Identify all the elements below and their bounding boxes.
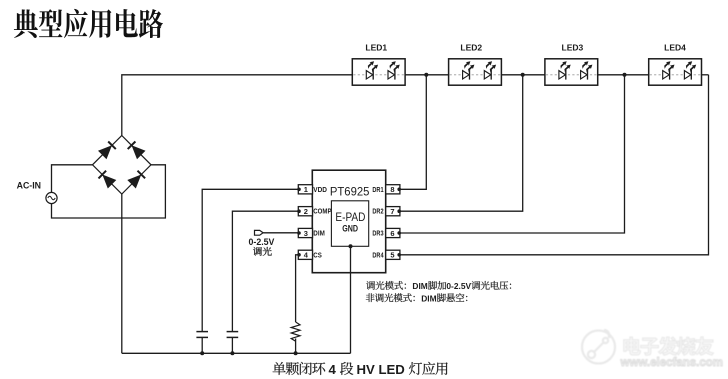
wire DR3 to LED3/LED4 node <box>399 75 624 233</box>
bridge diode (bottom to left) <box>102 175 116 189</box>
wire DR4 to LED4 output <box>399 75 708 255</box>
pin 4 (CS) <box>298 250 312 259</box>
node LED1/LED2 <box>424 73 428 77</box>
node LED3/LED4 <box>623 73 627 77</box>
node LED2/LED3 <box>521 73 525 77</box>
pin 2 (COMP) <box>298 207 312 216</box>
ground rail <box>122 352 351 354</box>
pin 7 (DR2) <box>386 207 400 216</box>
wire DR2 to LED2/LED3 node <box>399 75 523 211</box>
wire DR1 to LED1/LED2 node <box>399 75 426 190</box>
wire DIM input to pin 3 <box>263 232 299 234</box>
svg-text:7: 7 <box>390 207 394 216</box>
label 调光 <box>253 247 272 256</box>
capacitor C1 <box>196 331 208 333</box>
pin 6 (DR3) <box>386 228 400 237</box>
wire bridge left vertex to AC source <box>52 165 93 193</box>
note line 1 <box>366 281 406 290</box>
svg-text:AC-IN: AC-IN <box>17 180 41 190</box>
LED string LED4 <box>649 59 702 85</box>
wire C1 to ground rail <box>201 337 203 353</box>
op-chip U1 PT6925 body <box>312 170 385 273</box>
svg-text:DIM: DIM <box>412 281 427 291</box>
svg-text:LED1: LED1 <box>365 42 387 52</box>
wire bridge bottom vertex to ground rail <box>121 194 123 353</box>
watermark 电子发烧友 <box>624 337 714 355</box>
LED string LED1 <box>352 59 405 85</box>
node E-PAD GND <box>349 244 353 248</box>
wire bridge top vertex to LED top rail <box>122 75 352 136</box>
bridge rectifier (diamond) <box>93 136 152 195</box>
svg-text:5: 5 <box>390 251 394 260</box>
svg-text:LED4: LED4 <box>664 42 686 52</box>
LED string LED3 <box>545 59 598 85</box>
svg-text:3: 3 <box>304 229 308 238</box>
svg-text:DR1: DR1 <box>372 187 383 194</box>
wire COMP to C2 <box>232 211 299 331</box>
svg-text:GND: GND <box>342 223 358 234</box>
pin 8 (DR1) <box>386 185 400 194</box>
svg-text:DR4: DR4 <box>372 252 383 259</box>
svg-text:DR2: DR2 <box>372 209 383 216</box>
svg-text:0-2.5V: 0-2.5V <box>446 281 471 291</box>
svg-text:www.elecfans.com: www.elecfans.com <box>620 357 723 369</box>
wire E-PAD GND to ground rail <box>350 246 352 353</box>
pin 3 (DIM) <box>298 228 312 237</box>
svg-text:LED2: LED2 <box>460 42 482 52</box>
svg-text:PT6925: PT6925 <box>330 184 370 198</box>
svg-text:COMP: COMP <box>313 209 331 216</box>
caption 单颗闭环4段HV LED灯应用 <box>273 362 326 375</box>
wire LED4 to DR4 drop <box>702 74 709 76</box>
svg-text:0-2.5V: 0-2.5V <box>249 237 275 247</box>
svg-text:E-PAD: E-PAD <box>335 210 365 224</box>
bridge diode (bottom to right) <box>127 175 141 189</box>
wire LED2 to LED3 <box>501 74 545 76</box>
title 典型应用电路 <box>14 9 163 38</box>
svg-text:LED3: LED3 <box>562 42 584 52</box>
watermark logo circle <box>582 330 615 364</box>
wire CS to R1 <box>296 255 299 322</box>
svg-text:VDD: VDD <box>313 187 327 194</box>
svg-text:CS: CS <box>313 252 322 259</box>
node C1/ground <box>200 351 204 355</box>
bridge diode (right to top) <box>132 145 146 159</box>
LED string LED2 <box>449 59 502 85</box>
wire C2 to ground rail <box>231 337 233 353</box>
svg-text:1: 1 <box>304 185 308 194</box>
svg-text:4: 4 <box>325 362 340 377</box>
svg-text:DR3: DR3 <box>372 231 383 238</box>
connector DIM input <box>255 230 264 235</box>
pin 5 (DR4) <box>386 250 400 259</box>
resistor R1 <box>291 322 300 341</box>
node R1/ground <box>294 351 298 355</box>
wire VDD to C1 <box>202 189 299 331</box>
wire LED3 to LED4 <box>598 74 649 76</box>
bridge diode (left to top) <box>98 145 112 159</box>
svg-text:HV LED: HV LED <box>353 362 409 377</box>
note line 2 <box>366 293 415 302</box>
pin 1 (VDD) <box>298 185 312 194</box>
svg-text:DIM: DIM <box>313 231 325 238</box>
node C2/ground <box>230 351 234 355</box>
svg-text:8: 8 <box>390 185 394 194</box>
wire AC source bottom to bridge right vertex <box>52 165 166 218</box>
svg-text:2: 2 <box>304 207 308 216</box>
wire LED1 to LED2 <box>405 74 449 76</box>
E-PAD GND pad <box>331 201 368 247</box>
svg-text:6: 6 <box>390 229 394 238</box>
wire R1 to ground rail <box>295 339 297 354</box>
svg-text:DIM: DIM <box>421 293 436 303</box>
AC source AC-IN <box>46 192 57 203</box>
capacitor C2 <box>227 331 239 333</box>
